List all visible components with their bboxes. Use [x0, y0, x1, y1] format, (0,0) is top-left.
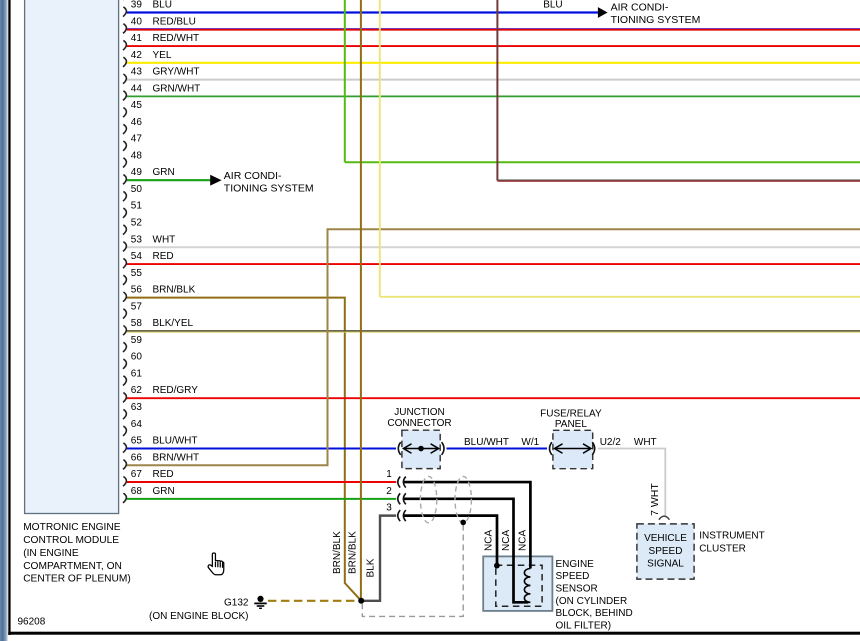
- svg-text:63: 63: [131, 402, 143, 413]
- svg-text:52: 52: [131, 218, 143, 229]
- svg-text:BRN/BLK: BRN/BLK: [332, 531, 343, 574]
- svg-text:39: 39: [131, 0, 143, 11]
- svg-text:COMPARTMENT, ON: COMPARTMENT, ON: [23, 561, 122, 572]
- svg-text:TIONING SYSTEM: TIONING SYSTEM: [224, 183, 314, 195]
- svg-text:PANEL: PANEL: [555, 419, 587, 430]
- svg-text:48: 48: [131, 150, 143, 161]
- svg-text:50: 50: [131, 184, 143, 195]
- svg-text:1: 1: [386, 469, 392, 480]
- svg-text:INSTRUMENT: INSTRUMENT: [699, 531, 765, 542]
- svg-text:42: 42: [131, 50, 143, 61]
- svg-text:45: 45: [131, 100, 143, 111]
- svg-text:YEL: YEL: [153, 50, 172, 61]
- svg-text:2: 2: [386, 486, 392, 497]
- svg-text:GRN: GRN: [153, 167, 175, 178]
- svg-text:BLOCK, BEHIND: BLOCK, BEHIND: [556, 608, 633, 619]
- svg-text:CLUSTER: CLUSTER: [699, 544, 746, 555]
- svg-text:(ON ENGINE BLOCK): (ON ENGINE BLOCK): [149, 611, 248, 622]
- svg-text:SPEED: SPEED: [649, 546, 683, 557]
- svg-text:WHT: WHT: [634, 437, 657, 448]
- svg-text:RED/WHT: RED/WHT: [153, 33, 200, 44]
- svg-text:W/1: W/1: [521, 437, 539, 448]
- svg-text:OIL FILTER): OIL FILTER): [556, 620, 612, 631]
- svg-text:(IN ENGINE: (IN ENGINE: [23, 548, 79, 559]
- svg-text:54: 54: [131, 251, 143, 262]
- svg-text:WHT: WHT: [153, 234, 176, 245]
- svg-text:RED: RED: [153, 469, 174, 480]
- svg-text:TIONING SYSTEM: TIONING SYSTEM: [611, 14, 701, 26]
- svg-text:CONNECTOR: CONNECTOR: [387, 418, 451, 429]
- svg-text:GRN: GRN: [153, 486, 175, 497]
- svg-text:BLU/WHT: BLU/WHT: [153, 436, 198, 447]
- svg-text:MOTRONIC ENGINE: MOTRONIC ENGINE: [23, 522, 121, 533]
- svg-text:BLK/YEL: BLK/YEL: [153, 318, 194, 329]
- svg-text:55: 55: [131, 268, 143, 279]
- svg-text:3: 3: [386, 503, 392, 514]
- svg-text:66: 66: [131, 452, 143, 463]
- svg-text:RED: RED: [153, 251, 174, 262]
- svg-text:RED/BLU: RED/BLU: [153, 16, 196, 27]
- svg-text:49: 49: [131, 167, 143, 178]
- svg-text:AIR CONDI-: AIR CONDI-: [224, 170, 282, 182]
- svg-text:40: 40: [131, 16, 143, 27]
- svg-text:44: 44: [131, 83, 143, 94]
- svg-text:CONTROL MODULE: CONTROL MODULE: [23, 535, 119, 546]
- svg-text:47: 47: [131, 134, 143, 145]
- svg-text:SIGNAL: SIGNAL: [647, 559, 684, 570]
- svg-text:FUSE/RELAY: FUSE/RELAY: [540, 409, 602, 420]
- svg-text:NCA: NCA: [483, 530, 494, 551]
- svg-text:U2/2: U2/2: [600, 437, 622, 448]
- svg-text:BLU: BLU: [543, 0, 562, 11]
- svg-text:BRN/WHT: BRN/WHT: [153, 452, 200, 463]
- svg-text:NCA: NCA: [501, 530, 512, 551]
- svg-text:BRN/BLK: BRN/BLK: [153, 285, 196, 296]
- svg-text:60: 60: [131, 352, 143, 363]
- svg-text:41: 41: [131, 33, 143, 44]
- svg-text:G132: G132: [224, 598, 249, 609]
- svg-text:SPEED: SPEED: [556, 571, 590, 582]
- svg-text:BLK: BLK: [366, 558, 377, 577]
- svg-text:(ON CYLINDER: (ON CYLINDER: [556, 596, 628, 607]
- svg-text:61: 61: [131, 368, 143, 379]
- svg-text:BLU: BLU: [153, 0, 172, 11]
- svg-text:7 WHT: 7 WHT: [649, 483, 661, 516]
- svg-text:65: 65: [131, 436, 143, 447]
- svg-text:62: 62: [131, 385, 143, 396]
- svg-text:GRY/WHT: GRY/WHT: [153, 67, 200, 78]
- svg-text:NCA: NCA: [517, 530, 528, 551]
- svg-text:58: 58: [131, 318, 143, 329]
- svg-text:JUNCTION: JUNCTION: [394, 407, 445, 418]
- svg-text:46: 46: [131, 117, 143, 128]
- svg-text:SENSOR: SENSOR: [556, 584, 598, 595]
- svg-text:CENTER OF PLENUM): CENTER OF PLENUM): [23, 574, 131, 585]
- svg-text:67: 67: [131, 469, 143, 480]
- svg-text:GRN/WHT: GRN/WHT: [153, 83, 201, 94]
- svg-text:96208: 96208: [18, 617, 46, 628]
- svg-text:53: 53: [131, 234, 143, 245]
- svg-text:VEHICLE: VEHICLE: [644, 533, 687, 544]
- svg-text:BRN/BLK: BRN/BLK: [347, 531, 358, 574]
- svg-text:ENGINE: ENGINE: [556, 559, 595, 570]
- svg-text:56: 56: [131, 285, 143, 296]
- svg-text:64: 64: [131, 419, 143, 430]
- svg-text:43: 43: [131, 67, 143, 78]
- svg-text:RED/GRY: RED/GRY: [153, 385, 199, 396]
- svg-text:51: 51: [131, 201, 143, 212]
- svg-text:59: 59: [131, 335, 143, 346]
- svg-text:BLU/WHT: BLU/WHT: [464, 437, 509, 448]
- svg-text:68: 68: [131, 486, 143, 497]
- svg-text:57: 57: [131, 301, 143, 312]
- svg-text:AIR CONDI-: AIR CONDI-: [611, 2, 669, 14]
